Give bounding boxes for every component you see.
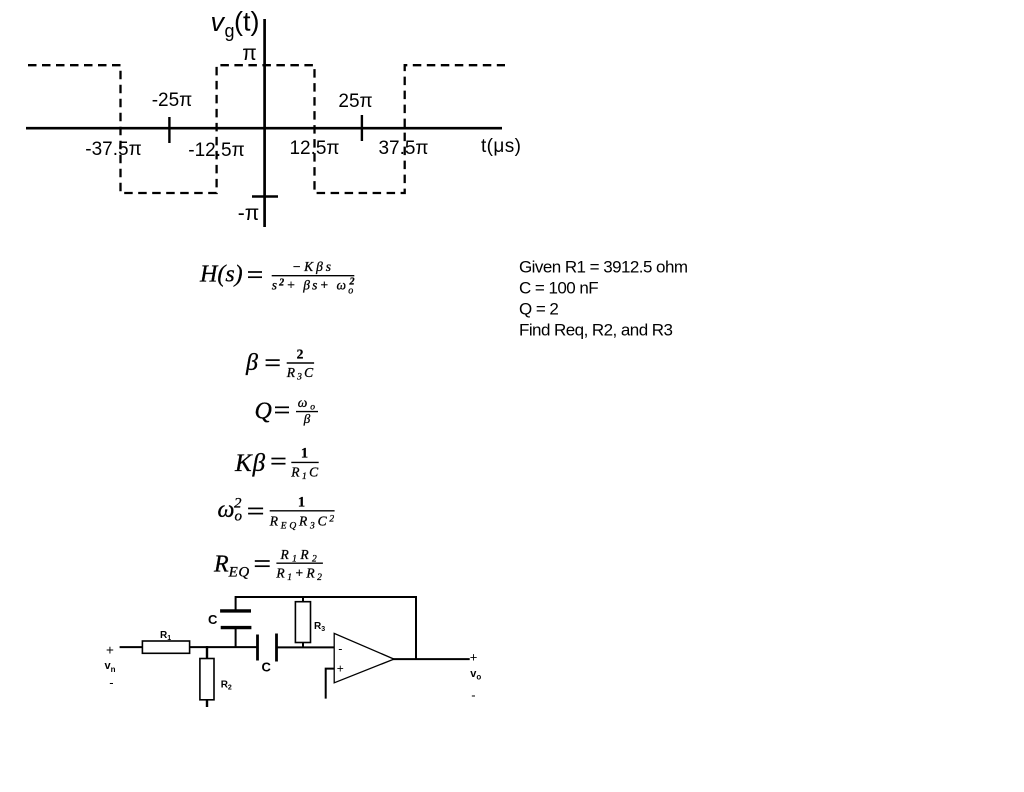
svg-text:+: + xyxy=(106,643,114,658)
stub top wire to R3 xyxy=(302,596,304,603)
axis label v_g(t) xyxy=(211,7,260,42)
svg-text:Q: Q xyxy=(255,399,272,425)
capacitor C2 left plate xyxy=(256,635,259,661)
svg-text:-12.5π: -12.5π xyxy=(188,140,244,161)
svg-text:+: + xyxy=(470,650,478,665)
riser C1 top plate to top wire xyxy=(235,596,237,611)
svg-text:t(μs): t(μs) xyxy=(481,136,521,157)
tick -25pi xyxy=(168,117,170,143)
resistor R2 xyxy=(200,659,214,700)
wire C2 to op-amp inverting input xyxy=(277,646,335,648)
svg-text:Kβ: Kβ xyxy=(234,450,266,477)
svg-text:Q = 2: Q = 2 xyxy=(519,300,558,319)
wire below R2 xyxy=(206,700,208,707)
tick -pi on vertical axis xyxy=(252,195,278,197)
node A stub down to R2 xyxy=(206,646,208,659)
svg-text:Find Req, R2, and R3: Find Req, R2, and R3 xyxy=(519,321,673,340)
svg-text:v: v xyxy=(211,7,226,37)
svg-text:-37.5π: -37.5π xyxy=(85,139,141,160)
svg-text:37.5π: 37.5π xyxy=(378,138,428,159)
resistor R1 xyxy=(142,641,189,653)
svg-text:25π: 25π xyxy=(338,91,372,112)
feedback vertical wire xyxy=(415,596,417,659)
riser node A up to capacitor C1 xyxy=(235,628,237,647)
capacitor C1 bottom plate xyxy=(221,626,252,629)
svg-text:-25π: -25π xyxy=(152,90,193,111)
svg-text:β: β xyxy=(303,411,311,426)
svg-text:2: 2 xyxy=(297,347,304,362)
svg-text:R1+R2: R1+R2 xyxy=(275,566,324,584)
svg-text:π: π xyxy=(242,42,257,65)
svg-text:-: - xyxy=(109,675,113,690)
svg-text:-: - xyxy=(471,688,475,703)
svg-text:−Kβs: −Kβs xyxy=(292,259,334,274)
fraction bar xyxy=(272,275,355,277)
svg-text:+: + xyxy=(337,662,344,676)
svg-text:1: 1 xyxy=(301,446,308,462)
capacitor C1 top plate xyxy=(220,609,251,612)
op-amp U1 xyxy=(334,633,394,682)
svg-text:-: - xyxy=(338,642,342,656)
horizontal axis (t) xyxy=(26,127,502,130)
svg-text:1: 1 xyxy=(298,495,305,511)
resistor R3 xyxy=(295,602,310,643)
output wire xyxy=(393,658,470,660)
vertical axis xyxy=(263,19,266,227)
svg-text:Given R1 = 3912.5 ohm: Given R1 = 3912.5 ohm xyxy=(519,258,688,277)
non-inverting input wire to ground xyxy=(326,669,335,699)
svg-text:g: g xyxy=(225,21,235,41)
svg-text:-π: -π xyxy=(238,202,259,225)
square wave dashed trace xyxy=(28,65,505,193)
wire R1 to node A xyxy=(190,646,258,648)
svg-text:H(s): H(s) xyxy=(199,262,243,288)
svg-text:12.5π: 12.5π xyxy=(289,138,339,159)
stub R3 to inverting wire xyxy=(302,643,304,649)
svg-text:C = 100 nF: C = 100 nF xyxy=(519,279,598,298)
svg-text:β: β xyxy=(245,350,258,376)
tick 25pi xyxy=(361,115,363,141)
svg-text:C: C xyxy=(262,660,272,675)
wire input to R1 xyxy=(120,646,143,648)
top feedback wire xyxy=(236,596,416,598)
svg-text:(t): (t) xyxy=(234,7,259,37)
svg-text:ωo2: ωo2 xyxy=(218,496,243,525)
capacitor C2 right plate xyxy=(275,634,278,662)
svg-text:C: C xyxy=(208,612,218,627)
